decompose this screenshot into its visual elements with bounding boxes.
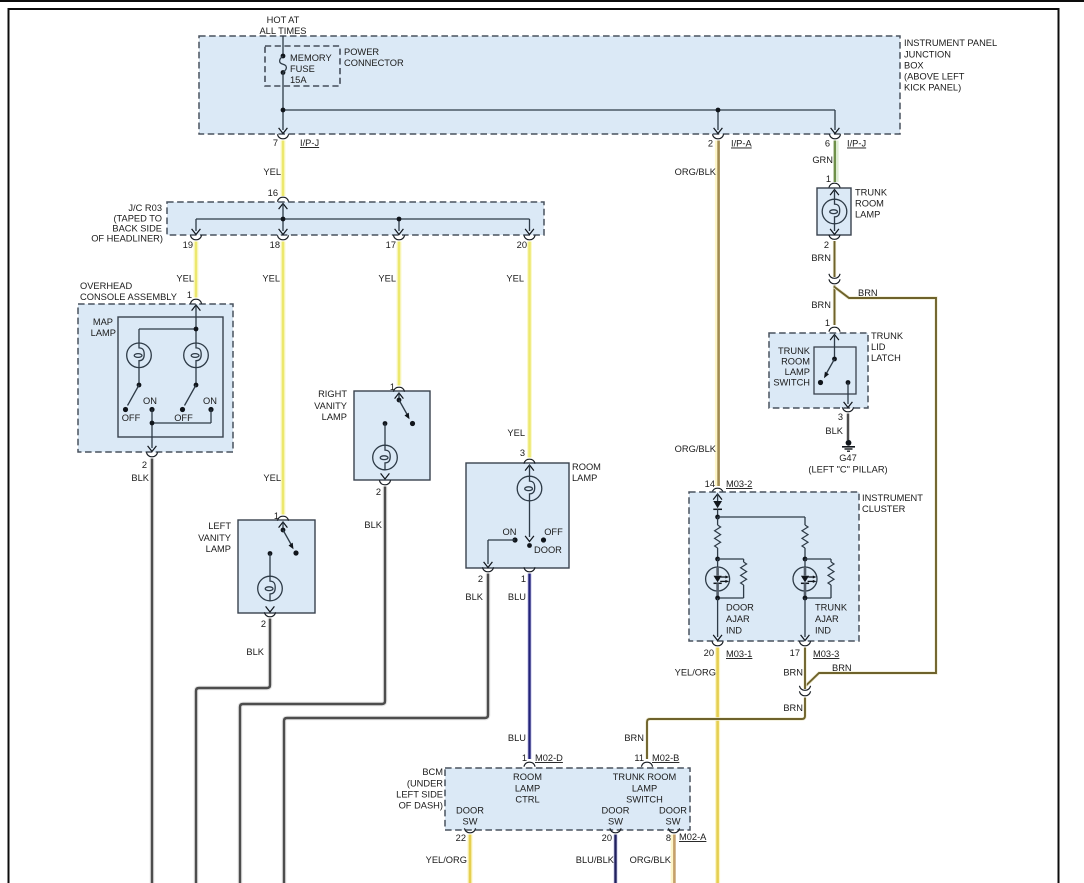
pin 16 of J/C R03: [268, 188, 289, 202]
svg-text:YEL: YEL: [262, 274, 280, 284]
switch map lamp right: [174, 383, 217, 423]
pin 2 trunk room lamp: [824, 235, 840, 250]
svg-text:2: 2: [824, 240, 829, 250]
pin 3 room lamp: [520, 448, 535, 464]
svg-text:YEL: YEL: [176, 274, 194, 284]
pin 1 trunk room lamp: [826, 174, 840, 188]
LED door ajar indicator: [706, 557, 730, 598]
map lamp inner box: [91, 317, 223, 437]
svg-text:1: 1: [522, 753, 527, 763]
svg-text:BRN: BRN: [811, 300, 831, 310]
pin 8 M02-A BCM: [666, 828, 707, 843]
resistor door ajar parallel: [718, 559, 747, 598]
svg-text:I/P-A: I/P-A: [731, 139, 752, 149]
room lamp box: [466, 462, 601, 568]
svg-text:IND: IND: [815, 626, 831, 636]
wire ORG/BLK junction box pin 2 to cluster pin 14: [675, 141, 719, 487]
svg-text:ON: ON: [143, 396, 157, 406]
svg-text:ON: ON: [503, 527, 517, 537]
svg-text:ORG/BLK: ORG/BLK: [675, 167, 717, 177]
pin 20: [517, 235, 535, 250]
wire YEL pin20 to room lamp: [506, 242, 529, 458]
svg-text:LAMP: LAMP: [515, 784, 540, 794]
svg-text:1: 1: [826, 174, 831, 184]
svg-text:BLK: BLK: [825, 426, 843, 436]
svg-text:DOOR: DOOR: [659, 806, 687, 816]
svg-text:G47: G47: [839, 453, 857, 463]
svg-text:CONNECTOR: CONNECTOR: [344, 58, 404, 68]
diode cluster input: [713, 494, 722, 517]
svg-text:3: 3: [838, 412, 843, 422]
svg-text:POWER: POWER: [344, 47, 379, 57]
svg-text:LAMP: LAMP: [91, 328, 116, 338]
svg-text:BLK: BLK: [465, 592, 483, 602]
svg-text:DOOR: DOOR: [534, 545, 562, 555]
svg-text:BRN: BRN: [624, 733, 644, 743]
svg-text:DOOR: DOOR: [726, 603, 754, 613]
bulb room lamp: [517, 465, 542, 501]
svg-text:16: 16: [268, 188, 278, 198]
svg-text:DOOR: DOOR: [602, 806, 630, 816]
wire BLK latch to ground: [825, 414, 848, 441]
svg-text:20: 20: [704, 648, 714, 658]
pin 2 right vanity: [376, 480, 391, 497]
power connector box: [265, 46, 404, 86]
wire BRN splice to trunk lid latch pin 1: [811, 286, 834, 326]
svg-text:KICK PANEL): KICK PANEL): [904, 83, 961, 93]
pin 2 overhead console: [142, 452, 158, 470]
svg-text:HOT AT: HOT AT: [267, 15, 300, 25]
pin 20 BCM: [602, 828, 621, 843]
svg-text:INSTRUMENT: INSTRUMENT: [862, 493, 923, 503]
resistor trunk ajar series: [802, 525, 808, 559]
svg-text:YEL: YEL: [507, 428, 525, 438]
svg-text:CONSOLE ASSEMBLY: CONSOLE ASSEMBLY: [80, 292, 177, 302]
svg-text:BLK: BLK: [131, 473, 149, 483]
wire YEL/ORG cluster pin 20 to bottom: [675, 648, 718, 883]
wire BLU room lamp to BCM pin 1: [508, 574, 530, 760]
bulb right vanity: [373, 424, 398, 480]
svg-text:CTRL: CTRL: [515, 795, 539, 805]
svg-text:AJAR: AJAR: [815, 614, 839, 624]
svg-text:RIGHT: RIGHT: [318, 389, 347, 399]
wire BLK map lamp ground: [131, 459, 152, 883]
svg-text:LEFT: LEFT: [208, 521, 231, 531]
svg-text:BLU: BLU: [508, 592, 526, 602]
wire BRN splice branch to right riser: [805, 287, 936, 687]
svg-text:YEL: YEL: [378, 274, 396, 284]
svg-text:20: 20: [517, 240, 527, 250]
svg-text:SW: SW: [608, 817, 623, 827]
svg-text:8: 8: [666, 833, 671, 843]
svg-text:2: 2: [142, 460, 147, 470]
svg-text:BRN: BRN: [783, 668, 803, 678]
svg-text:TRUNK: TRUNK: [815, 603, 848, 613]
svg-text:BRN: BRN: [783, 703, 803, 713]
node bus junction 18: [281, 217, 286, 222]
pin 1 M02-D BCM: [522, 753, 563, 767]
junction connector J/C R03 box: [91, 202, 544, 244]
pin 2 left vanity: [261, 612, 276, 629]
svg-text:17: 17: [386, 240, 396, 250]
bulb left vanity: [258, 554, 283, 613]
switch room lamp ON/OFF/DOOR: [503, 501, 564, 555]
wire GRN pin 6 to trunk room lamp: [812, 141, 836, 183]
pin 2 room lamp: [478, 567, 494, 584]
svg-text:CLUSTER: CLUSTER: [862, 504, 906, 514]
resistor door ajar series: [715, 525, 721, 559]
svg-text:OF HEADLINER): OF HEADLINER): [91, 234, 163, 244]
svg-text:15A: 15A: [290, 75, 307, 85]
switch right vanity: [383, 393, 416, 426]
pin 1 left vanity: [274, 511, 289, 521]
bulb trunk room lamp: [822, 190, 847, 235]
wire left bulb to switch: [138, 368, 140, 385]
pin 18: [270, 235, 289, 250]
wire trunk ajar to pin 17: [801, 596, 848, 641]
svg-text:ALL TIMES: ALL TIMES: [259, 26, 306, 36]
svg-text:AJAR: AJAR: [726, 614, 750, 624]
wire junction box internal bus: [283, 73, 835, 131]
svg-text:ROOM: ROOM: [781, 357, 810, 367]
svg-text:SW: SW: [666, 817, 681, 827]
svg-text:BRN: BRN: [858, 288, 878, 298]
pin 19: [183, 235, 202, 250]
wire right bulb to switch: [195, 368, 197, 385]
svg-text:LAMP: LAMP: [855, 210, 880, 220]
switch left vanity: [268, 522, 299, 556]
svg-text:VANITY: VANITY: [314, 401, 347, 411]
wire BLK left vanity ground: [196, 619, 270, 883]
node output junction: [150, 421, 155, 426]
svg-text:INSTRUMENT PANEL: INSTRUMENT PANEL: [904, 38, 997, 48]
svg-text:1: 1: [187, 290, 192, 300]
node supply junction: [194, 327, 199, 332]
svg-text:1: 1: [521, 574, 526, 584]
pin 3 trunk lid latch: [838, 407, 854, 422]
pin 1 room lamp: [521, 567, 535, 584]
svg-text:YEL: YEL: [263, 473, 281, 483]
svg-text:I/P-J: I/P-J: [847, 139, 866, 149]
wire BLU/BLK BCM pin 20 down: [576, 835, 616, 883]
svg-text:14: 14: [705, 479, 715, 489]
switch trunk room lamp switch: [818, 335, 852, 408]
svg-text:M03-3: M03-3: [813, 649, 839, 659]
node bus junction 17: [397, 217, 402, 222]
wire J/C R03 internal bus: [192, 204, 534, 235]
svg-text:IND: IND: [726, 626, 742, 636]
wire YEL/ORG BCM pin 22 down: [426, 835, 470, 883]
svg-text:M02-B: M02-B: [652, 753, 679, 763]
pin 11 M02-B BCM: [634, 753, 679, 767]
svg-text:VANITY: VANITY: [198, 533, 231, 543]
pin 1 trunk lid latch: [825, 318, 840, 332]
svg-text:OVERHEAD: OVERHEAD: [80, 281, 132, 291]
pin 20 M03-1: [704, 641, 753, 659]
bulb map lamp left: [127, 343, 152, 368]
pin 1 right vanity: [390, 382, 405, 392]
pin 7 I/P-J: [273, 128, 319, 148]
svg-text:ON: ON: [203, 396, 217, 406]
svg-text:TRUNK: TRUNK: [778, 346, 811, 356]
svg-text:M02-D: M02-D: [535, 753, 563, 763]
svg-text:GRN: GRN: [812, 155, 833, 165]
svg-text:SW: SW: [463, 817, 478, 827]
svg-text:LID: LID: [871, 342, 886, 352]
svg-text:JUNCTION: JUNCTION: [904, 50, 951, 60]
wire BLK right vanity ground: [240, 487, 385, 883]
instrument panel junction box: [199, 36, 997, 134]
svg-text:LAMP: LAMP: [632, 784, 657, 794]
svg-text:OFF: OFF: [174, 413, 193, 423]
wire BLK room lamp ground: [284, 574, 488, 883]
svg-text:6: 6: [825, 139, 830, 149]
svg-text:BLU: BLU: [508, 733, 526, 743]
svg-text:2: 2: [261, 619, 266, 629]
svg-text:SWITCH: SWITCH: [773, 378, 810, 388]
svg-text:OFF: OFF: [544, 527, 563, 537]
svg-text:YEL/ORG: YEL/ORG: [675, 668, 716, 678]
LED trunk ajar indicator: [793, 557, 817, 598]
svg-text:18: 18: [270, 240, 280, 250]
BCM box: [396, 767, 690, 830]
svg-text:ROOM: ROOM: [513, 772, 542, 782]
svg-text:2: 2: [376, 487, 381, 497]
wire YEL pin19 to overhead console: [176, 242, 196, 298]
wire BRN splice to BCM pin 11: [624, 698, 805, 760]
trunk lid latch box: [769, 331, 904, 408]
svg-text:M02-A: M02-A: [679, 832, 707, 842]
svg-text:22: 22: [456, 833, 466, 843]
svg-text:1: 1: [825, 318, 830, 328]
wire map lamp ON bus to output: [148, 410, 211, 452]
svg-text:SWITCH: SWITCH: [626, 795, 663, 805]
left vanity lamp box: [198, 520, 315, 613]
svg-text:TRUNK: TRUNK: [871, 331, 904, 341]
svg-text:I/P-J: I/P-J: [300, 138, 319, 148]
right vanity lamp box: [314, 389, 430, 480]
svg-text:ORG/BLK: ORG/BLK: [630, 855, 672, 865]
fuse MEMORY FUSE 15A: [280, 53, 332, 85]
pin 6 I/P-J: [825, 128, 866, 149]
svg-text:LAMP: LAMP: [322, 412, 347, 422]
overhead console assembly box: [78, 281, 233, 452]
svg-text:J/C R03: J/C R03: [128, 203, 162, 213]
wire ORG/BLK BCM pin 8 down: [630, 835, 675, 883]
wire BRN trunk lamp to splice: [811, 241, 834, 277]
wire BRN cluster pin 17 to splice: [783, 648, 805, 690]
svg-text:OF DASH): OF DASH): [399, 801, 443, 811]
node bus junction at fuse column: [281, 108, 286, 113]
svg-text:FUSE: FUSE: [290, 64, 315, 74]
bulb map lamp right: [184, 343, 209, 368]
svg-text:MAP: MAP: [93, 317, 113, 327]
svg-text:LATCH: LATCH: [871, 353, 901, 363]
svg-text:2: 2: [708, 139, 713, 149]
pin 22 BCM: [456, 828, 476, 843]
wire room lamp ON contact to pin 2: [484, 540, 515, 568]
svg-text:LEFT SIDE: LEFT SIDE: [396, 790, 443, 800]
node bus junction at I/P-A column: [716, 108, 721, 113]
svg-text:YEL/ORG: YEL/ORG: [426, 855, 467, 865]
switch map lamp left: [122, 383, 157, 423]
svg-text:M03-2: M03-2: [726, 479, 752, 489]
svg-text:(UNDER: (UNDER: [407, 779, 443, 789]
splice BRN lower: [799, 686, 810, 696]
instrument cluster box: [689, 492, 923, 641]
wire door ajar to pin 20: [713, 596, 754, 641]
svg-text:7: 7: [273, 138, 278, 148]
svg-text:MEMORY: MEMORY: [290, 53, 332, 63]
svg-text:LAMP: LAMP: [206, 544, 231, 554]
svg-text:DOOR: DOOR: [456, 806, 484, 816]
wire map lamp supply: [139, 305, 200, 343]
svg-text:(TAPED TO: (TAPED TO: [113, 214, 162, 224]
trunk room lamp box: [817, 188, 888, 236]
svg-text:M03-1: M03-1: [726, 649, 752, 659]
svg-text:BRN: BRN: [811, 253, 831, 263]
wire YEL pin17 to right vanity lamp: [378, 242, 399, 386]
svg-text:YEL: YEL: [263, 167, 281, 177]
svg-text:BRN: BRN: [832, 663, 852, 673]
svg-text:11: 11: [634, 753, 644, 763]
svg-text:ORG/BLK: ORG/BLK: [675, 444, 717, 454]
wire YEL pin18 to left vanity lamp: [262, 242, 283, 515]
svg-text:BLK: BLK: [246, 647, 264, 657]
svg-text:LAMP: LAMP: [785, 367, 810, 377]
node HOT AT ALL TIMES: [259, 15, 306, 36]
svg-text:3: 3: [520, 448, 525, 458]
wire cluster internal split: [715, 515, 805, 525]
svg-text:YEL: YEL: [506, 274, 524, 284]
wire battery feed into fuse: [282, 36, 284, 55]
svg-text:BLU/BLK: BLU/BLK: [576, 855, 615, 865]
pin 17: [386, 235, 405, 250]
pin 14 M03-2 instrument cluster: [705, 479, 753, 493]
pin 2 I/P-A: [708, 128, 753, 149]
svg-text:2: 2: [478, 574, 483, 584]
splice trunk BRN: [829, 274, 840, 284]
svg-text:LAMP: LAMP: [572, 473, 597, 483]
resistor trunk ajar parallel: [805, 559, 834, 598]
trunk room lamp switch inner box: [773, 346, 856, 394]
svg-text:TRUNK ROOM: TRUNK ROOM: [613, 772, 677, 782]
svg-text:ROOM: ROOM: [855, 199, 884, 209]
svg-text:OFF: OFF: [122, 413, 141, 423]
svg-text:BOX: BOX: [904, 61, 924, 71]
svg-text:BACK SIDE: BACK SIDE: [112, 224, 162, 234]
svg-text:ROOM: ROOM: [572, 462, 601, 472]
svg-text:19: 19: [183, 240, 193, 250]
svg-text:BCM: BCM: [422, 767, 443, 777]
svg-text:BLK: BLK: [364, 520, 382, 530]
ground G47: [808, 440, 887, 475]
svg-text:(ABOVE LEFT: (ABOVE LEFT: [904, 72, 965, 82]
svg-text:(LEFT "C" PILLAR): (LEFT "C" PILLAR): [808, 465, 887, 475]
pin 1 overhead console: [187, 290, 202, 304]
wire YEL pin7 to J/C R03 pin 16: [263, 141, 283, 197]
svg-text:20: 20: [602, 833, 612, 843]
svg-text:17: 17: [790, 648, 800, 658]
pin 17 M03-3: [790, 641, 840, 659]
svg-text:TRUNK: TRUNK: [855, 188, 888, 198]
